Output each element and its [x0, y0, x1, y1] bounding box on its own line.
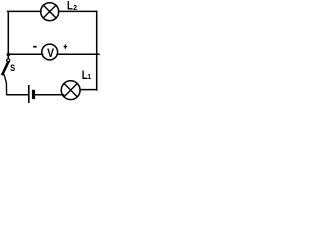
label L1: [82, 69, 88, 82]
battery B1 short plate: [32, 91, 35, 97]
wire bottom-left horizontal: [7, 94, 28, 96]
svg-text:2: 2: [73, 5, 77, 12]
wire top-left horizontal: [8, 10, 41, 12]
wire battery to lamp L1: [35, 94, 63, 96]
svg-text:S: S: [10, 62, 15, 73]
wire top-right horizontal: [59, 10, 97, 12]
svg-text:1: 1: [87, 74, 91, 81]
wire voltmeter branch right: [57, 53, 99, 55]
label L2: [67, 0, 73, 13]
wire lamp L1 to right rail: [81, 89, 97, 91]
wire right rail: [96, 11, 98, 90]
battery B1 long plate: [28, 86, 30, 103]
wire lower-left: [4, 75, 6, 94]
wire left rail upper: [7, 11, 9, 58]
svg-text:V: V: [47, 48, 55, 61]
junction node left: [7, 53, 10, 56]
label minus of voltmeter: [33, 46, 36, 48]
label V of voltmeter: [47, 48, 55, 61]
switch S: [7, 59, 10, 62]
lamp L2: [41, 3, 59, 21]
label plus of voltmeter: [64, 45, 68, 49]
voltmeter U1: [42, 44, 58, 60]
label S of switch: [10, 62, 15, 73]
wire voltmeter branch left: [8, 53, 42, 55]
lamp L1: [61, 81, 80, 100]
